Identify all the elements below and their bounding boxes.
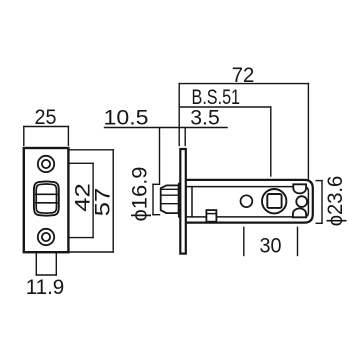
body left inner wall (191, 187, 193, 217)
svg-text:ϕ23.6: ϕ23.6 (323, 176, 347, 227)
body inner lines (187, 187, 309, 217)
right cluster: dome (293, 208, 306, 217)
body outline (187, 180, 313, 223)
svg-text:30: 30 (260, 234, 282, 258)
dim BS51 line (179, 106, 271, 108)
phi16.9 bracket (152, 184, 154, 214)
svg-text:11.9: 11.9 (26, 275, 65, 299)
dim 57 bracket (69, 149, 114, 151)
svg-text:10.5: 10.5 (104, 105, 149, 129)
tab on body bottom (206, 210, 216, 222)
ext lines 3.5 (178, 84, 180, 146)
dim 42 bracket (69, 162, 94, 164)
dim 11.9 (35, 253, 37, 275)
ext line bolt tip (159, 128, 161, 183)
svg-text:72: 72 (232, 63, 255, 87)
small circle hole (241, 195, 253, 207)
svg-text:57: 57 (91, 188, 115, 217)
phi23.6 bracket (321, 181, 323, 224)
right cluster: cup (293, 184, 306, 193)
dim 72 line (179, 83, 308, 85)
dim line 10.5 / 3.5 (105, 127, 228, 129)
top screw hole (38, 156, 54, 172)
right cluster: circle (296, 196, 307, 207)
svg-text:ϕ16.9: ϕ16.9 (128, 167, 152, 222)
latch bolt front band lines (36, 193, 58, 195)
dim 25 (24, 126, 69, 128)
svg-text:3.5: 3.5 (190, 105, 220, 129)
faceplate side view (180, 149, 186, 254)
bolt side view (161, 185, 179, 213)
bottom screw hole (38, 229, 54, 245)
latch bolt front inner (36, 184, 56, 213)
bolt collar (179, 184, 181, 217)
dim 30 (243, 227, 245, 255)
latch bolt front outer (34, 181, 59, 215)
svg-text:25: 25 (35, 105, 57, 129)
spindle follower (262, 189, 286, 213)
faceplate front rect (24, 148, 69, 252)
